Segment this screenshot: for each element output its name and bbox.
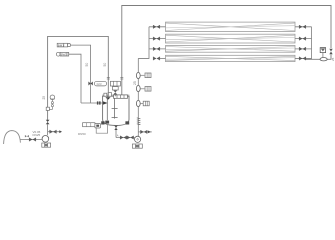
wire: row3 right stub: [295, 48, 312, 50]
tube T4: [166, 55, 296, 61]
flange ticks on big riser: [120, 77, 123, 79]
wire: row2 right stub: [295, 38, 312, 40]
gooseneck arc: [4, 131, 21, 144]
tee to sample arrow: [48, 131, 61, 133]
valve on drain line: [29, 138, 35, 142]
wire: row1 right stub: [295, 26, 312, 28]
wire: bottom return line right: [305, 58, 331, 60]
valve E1 on riser: [136, 72, 140, 78]
sample valve: [141, 130, 147, 134]
svg-text:BW2: BW2: [61, 53, 68, 57]
wire from B2: [69, 54, 81, 103]
dip tube: [106, 96, 108, 120]
feed arrow: [103, 101, 108, 105]
valve row1 left: [153, 25, 159, 29]
svg-text:25: 25: [133, 81, 137, 85]
pump P2 base: [42, 143, 51, 147]
wire from B1: [71, 45, 91, 103]
vent funnel above sight glass: [322, 53, 324, 58]
svg-text:25: 25: [42, 96, 46, 100]
stadium label: [94, 81, 106, 86]
vessel bottom right nozzle: [125, 121, 129, 124]
left loop header: [48, 36, 109, 120]
valve row2 left: [153, 37, 159, 41]
wire: right riser below valve: [330, 55, 332, 60]
boxes under vessel left: [83, 123, 101, 128]
instrument valve at vessel top left: [88, 82, 92, 86]
agitator paddle lower: [112, 117, 118, 119]
tube T1: [166, 22, 296, 31]
valve row1 right: [299, 25, 305, 29]
flex coupling hatch on riser: [137, 118, 141, 125]
svg-text:DN25: DN25: [33, 133, 41, 137]
wire: drain line to pump: [20, 139, 42, 141]
wire: row4 right stub: [295, 57, 312, 59]
valve on right riser: [329, 49, 332, 55]
pump P1: [135, 136, 141, 142]
label box B1: [57, 43, 70, 47]
svg-text:023: 023: [97, 82, 102, 86]
pump P1 base: [132, 144, 142, 148]
valve E2 on riser: [136, 85, 140, 91]
valve row3 right: [299, 47, 305, 51]
valve row4 left: [153, 57, 159, 61]
svg-text:DN50: DN50: [78, 132, 86, 136]
instrument box I3: [141, 103, 143, 105]
label box B2: [56, 52, 68, 56]
wire: row3 left stub: [149, 48, 166, 50]
outlet valve vertical: [114, 126, 117, 130]
instrument box I2: [141, 88, 145, 90]
wire: outlet to pump: [116, 137, 135, 139]
valve row3 left: [153, 47, 159, 51]
instrument box I1: [141, 74, 145, 76]
left leg inline box: [46, 107, 49, 110]
agitator shaft: [114, 98, 116, 118]
tiny valve to vessel top: [113, 90, 117, 94]
sample lollipop circle: [48, 95, 55, 110]
sight glass ellipse: [320, 58, 327, 61]
feed flange: [97, 101, 99, 104]
wire: big loop top header: [122, 6, 331, 97]
svg-text:50: 50: [103, 63, 107, 67]
wire: left inlet manifold: [138, 27, 149, 59]
tube T3: [166, 46, 296, 53]
valve E3 on riser: [136, 100, 140, 106]
pump P2: [42, 136, 49, 143]
wire: row4 stub to tube: [160, 57, 166, 59]
vessel top nozzle stub 2: [108, 93, 111, 97]
dark valve on left leg: [46, 120, 50, 124]
tube T2: [166, 34, 296, 43]
vessel R1 body: [102, 95, 129, 125]
valve row2 right: [299, 37, 305, 41]
svg-text:BM1: BM1: [58, 43, 65, 47]
wire: pump discharge tee to sample: [138, 131, 152, 133]
small box below instrument box: [112, 87, 118, 90]
wire: left leg lower: [47, 124, 49, 135]
wire: row2 left stub: [149, 38, 166, 40]
wire from vessel bottom-left nozzle to boxes: [96, 125, 107, 134]
vessel bottom outlet: [115, 126, 117, 138]
arrow sample outlet: [148, 131, 151, 134]
second suction valve: [127, 136, 133, 140]
vortex triangle inside vessel top: [105, 97, 110, 100]
agitator paddle upper: [112, 108, 118, 110]
svg-text:50: 50: [85, 63, 89, 67]
wire: row1 left stub: [149, 26, 166, 28]
tiny mark: [25, 135, 29, 137]
flange ticks on loop leg: [107, 77, 110, 79]
dip tube tip: [105, 121, 109, 124]
vessel top nozzle stub 1: [104, 93, 107, 96]
wire: right outlet manifold: [311, 27, 313, 59]
svg-text:A: A: [117, 134, 119, 138]
instrument box above vessel: [110, 81, 120, 86]
vessel top nozzle box: [114, 95, 128, 98]
wire: riser from pump to bundle: [137, 58, 139, 136]
vessel bottom left nozzle: [101, 121, 104, 124]
feed line into vessel: [81, 102, 103, 104]
valve row4 right: [299, 57, 305, 61]
valve on pump suction: [120, 136, 126, 140]
